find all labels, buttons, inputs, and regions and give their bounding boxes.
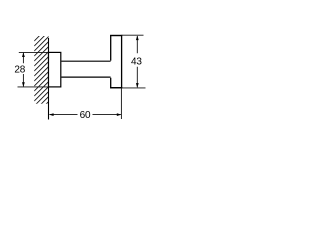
arrow left of dimension 60: [49, 113, 54, 116]
extension line bottom of dimension 28: [18, 86, 49, 88]
dimension line 60 (horizontal, broken for label): [50, 114, 121, 116]
extension line top of dimension 43: [122, 34, 144, 36]
wall face line (also left extension line of dimension 60): [48, 38, 50, 120]
extension line top of dimension 28: [19, 51, 49, 53]
svg-text:28: 28: [14, 64, 25, 75]
hook pin (horizontal arm): [61, 61, 110, 77]
arrow up of dimension 43: [136, 36, 139, 41]
base plate (side view, on wall): [49, 52, 61, 87]
front plate (vertical bar, left edge interrupted by pin): [110, 36, 122, 88]
wall hatching: [34, 27, 49, 122]
arrow down of dimension 43: [136, 83, 139, 88]
extension line right of dimension 60: [120, 88, 122, 119]
svg-text:60: 60: [80, 110, 91, 121]
svg-text:43: 43: [131, 56, 142, 67]
dimension line 28 (vertical, broken for label): [22, 53, 24, 87]
arrow right of dimension 60: [117, 113, 122, 116]
arrow down of dimension 28: [22, 82, 25, 87]
arrow up of dimension 28: [22, 52, 25, 57]
dimension line 43 (vertical, broken for label): [136, 36, 138, 87]
extension line bottom of dimension 43: [122, 87, 146, 89]
